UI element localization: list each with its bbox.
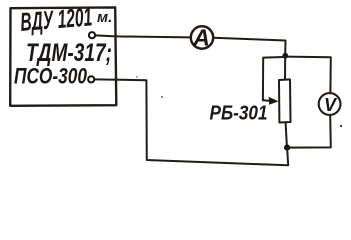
wire junction to rheostat top <box>284 57 286 80</box>
wire voltmeter top branch <box>286 57 331 93</box>
wire ammeter to top corner <box>213 38 285 56</box>
wire rheostat bottom to node <box>286 123 287 147</box>
svg-text:V: V <box>324 95 338 115</box>
ammeter PA1 <box>191 26 213 48</box>
wire bottom return loop to terminal2 <box>95 79 289 165</box>
wire terminal1 to ammeter <box>95 35 190 37</box>
scan speck 1 <box>340 125 342 127</box>
scan speck 3 <box>136 76 138 78</box>
voltmeter PV1 <box>319 93 341 115</box>
scan speck 2 <box>161 96 163 98</box>
rheostat RB-301 body <box>279 79 291 122</box>
svg-text:ВДУ 1201: ВДУ 1201 <box>19 1 93 37</box>
wire voltmeter bottom branch <box>289 115 331 148</box>
node top junction <box>282 53 288 59</box>
wire wiper branch <box>263 57 284 101</box>
power source box <box>10 7 116 105</box>
svg-text:ПСО-300: ПСО-300 <box>14 64 88 89</box>
terminal 2 (lower) <box>88 76 94 82</box>
svg-text:м.: м. <box>97 9 112 26</box>
terminal 1 (upper) <box>89 32 95 38</box>
wiper arrowhead <box>269 97 278 104</box>
svg-text:РБ-301: РБ-301 <box>210 103 268 125</box>
svg-text:A: A <box>192 25 210 51</box>
node bottom junction <box>284 145 290 151</box>
